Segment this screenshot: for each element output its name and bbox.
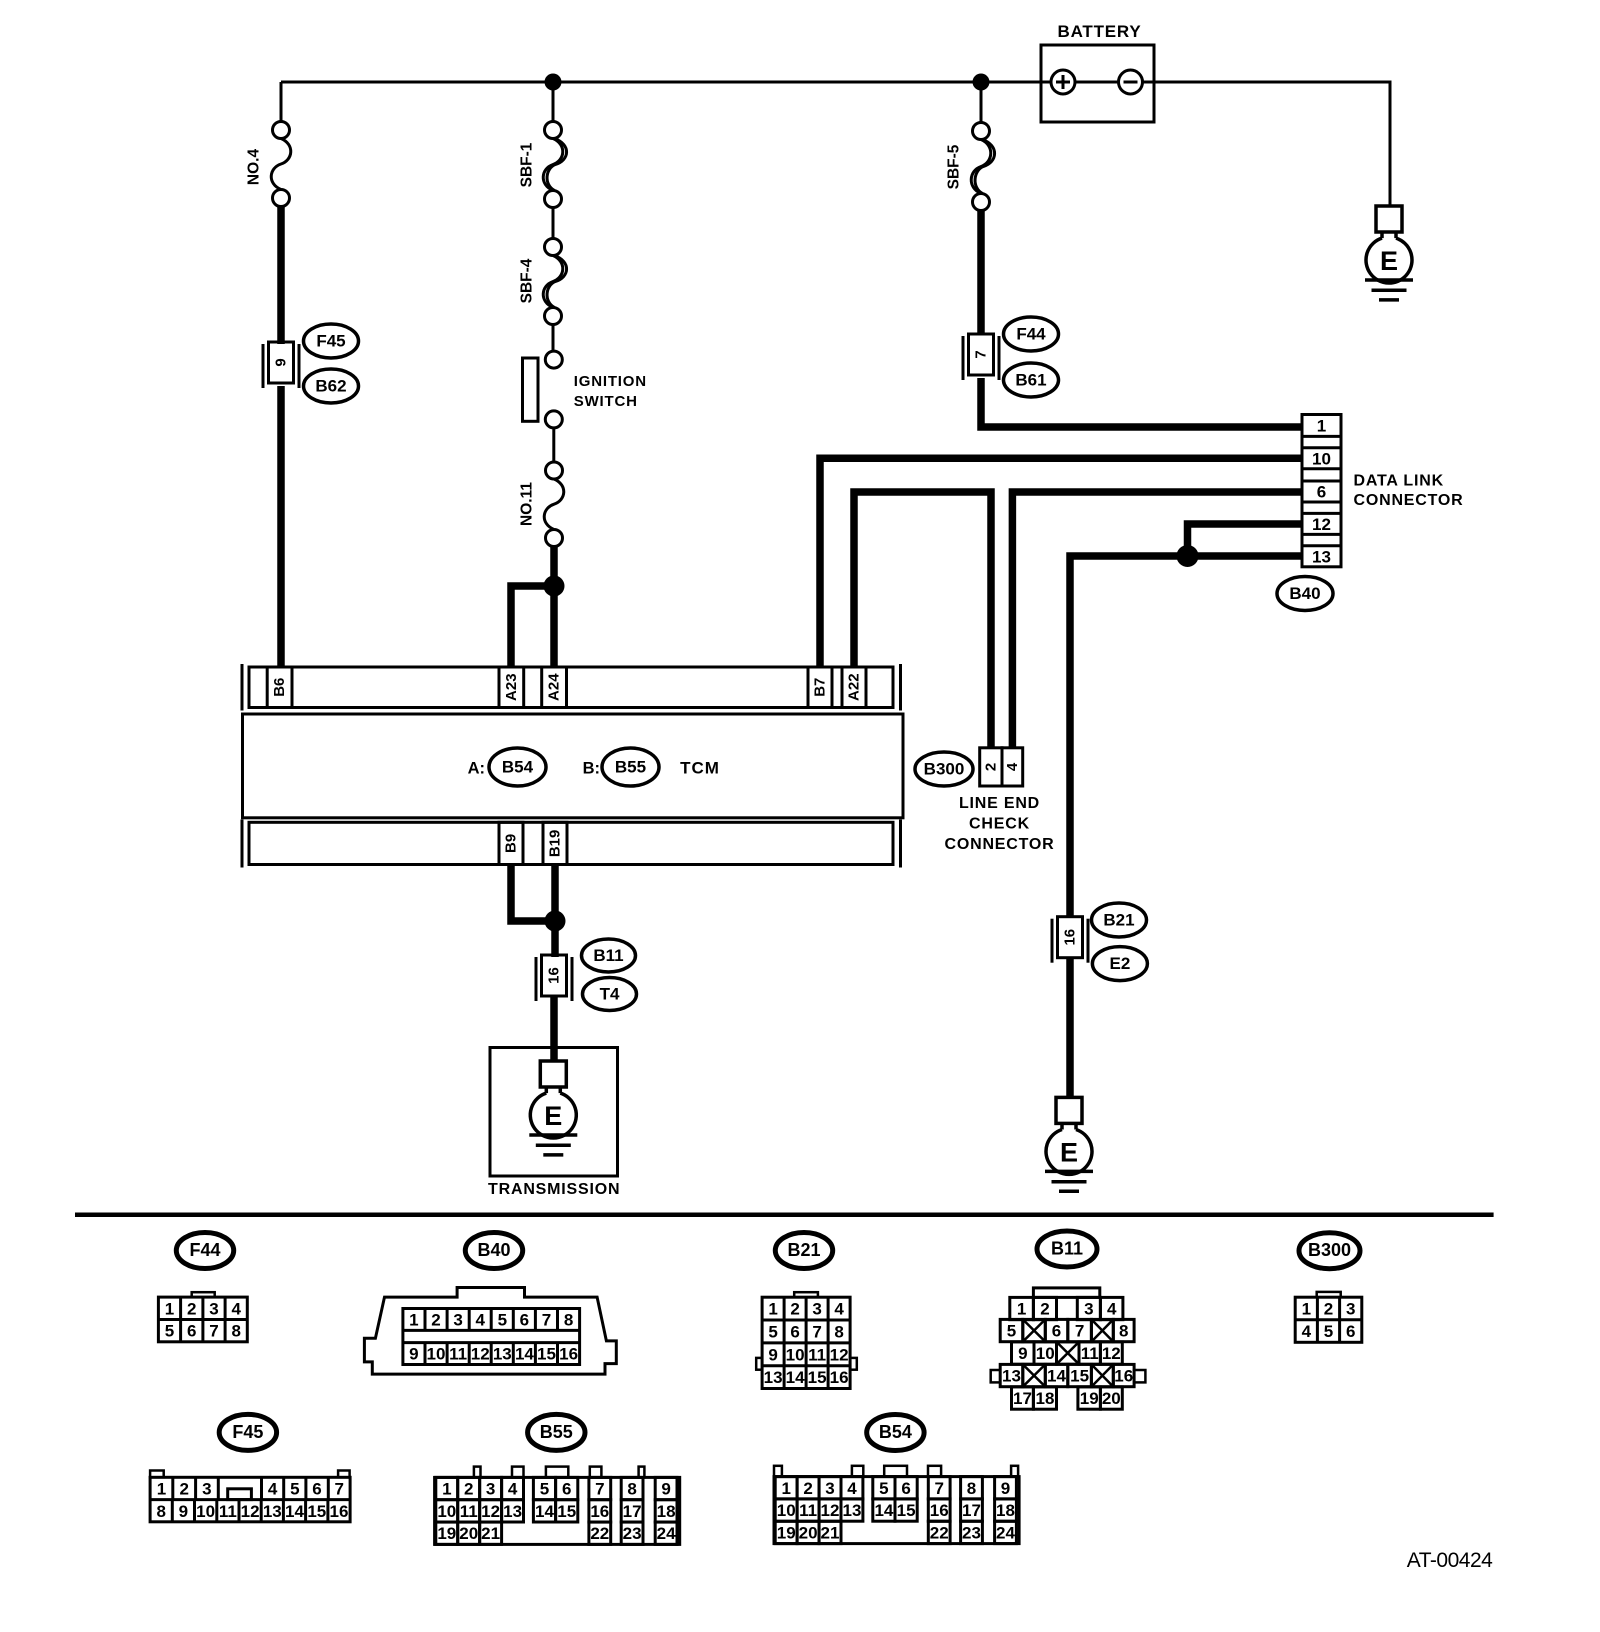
svg-text:13: 13 [493, 1345, 512, 1364]
svg-text:B21: B21 [787, 1240, 820, 1260]
svg-text:11: 11 [460, 1502, 478, 1521]
pin 6 [1045, 1319, 1068, 1341]
connector B54 label oval (pinout) [867, 1415, 924, 1451]
svg-text:2: 2 [983, 763, 1000, 771]
svg-text:A23: A23 [503, 673, 520, 701]
fuse SBF-4 [519, 239, 567, 325]
svg-text:11: 11 [808, 1345, 826, 1364]
svg-text:20: 20 [1102, 1389, 1121, 1408]
svg-text:4: 4 [834, 1300, 844, 1319]
svg-text:1: 1 [768, 1300, 777, 1319]
connector B54 pinout [774, 1466, 1019, 1544]
svg-text:10: 10 [1036, 1344, 1055, 1363]
pin 10 [1034, 1342, 1057, 1364]
svg-text:13: 13 [503, 1502, 522, 1521]
connector pin 16 of B11/T4 [536, 955, 572, 1001]
svg-text:21: 21 [821, 1523, 840, 1542]
switch - IGNITION SWITCH [523, 351, 647, 428]
svg-text:13: 13 [1002, 1367, 1021, 1386]
svg-text:8: 8 [156, 1502, 165, 1521]
svg-text:11: 11 [799, 1501, 817, 1520]
connector B40 pinout outline [364, 1288, 616, 1375]
connector B40 label oval (pinout) [465, 1233, 522, 1269]
wire - F45 pin 9 down to TCM terminal B6 [277, 386, 285, 667]
svg-text:18: 18 [657, 1502, 676, 1521]
pin 15 [1068, 1364, 1092, 1386]
connector T4 label [583, 978, 637, 1011]
svg-text:7: 7 [812, 1323, 821, 1342]
svg-text:F44: F44 [1016, 325, 1046, 344]
svg-text:5: 5 [879, 1479, 888, 1498]
svg-text:9: 9 [661, 1480, 670, 1499]
svg-text:B9: B9 [503, 834, 520, 853]
svg-text:6: 6 [1317, 483, 1326, 502]
connector E2 label [1092, 947, 1147, 981]
svg-text:5: 5 [540, 1480, 549, 1499]
svg-text:8: 8 [967, 1479, 976, 1498]
svg-text:TRANSMISSION: TRANSMISSION [488, 1181, 620, 1198]
svg-text:14: 14 [515, 1345, 534, 1364]
terminal A24 [542, 667, 567, 708]
svg-text:6: 6 [1052, 1322, 1061, 1341]
svg-text:3: 3 [486, 1480, 495, 1499]
svg-text:9: 9 [409, 1345, 418, 1364]
connector - DATA LINK CONNECTOR B40 pin stack [1302, 415, 1341, 567]
svg-text:4: 4 [268, 1480, 278, 1499]
svg-text:15: 15 [307, 1502, 326, 1521]
svg-text:7: 7 [973, 350, 990, 358]
svg-text:7: 7 [1075, 1322, 1084, 1341]
svg-text:NO.11: NO.11 [519, 482, 536, 526]
svg-text:F45: F45 [232, 1422, 263, 1442]
svg-text:19: 19 [1080, 1389, 1099, 1408]
wire - drop from bus to fuse SBF-1 [552, 82, 555, 122]
crossed cavity [1023, 1364, 1046, 1386]
wire - SBF-5 to fuse F44 pin 7 [977, 210, 985, 335]
svg-text:CHECK: CHECK [969, 816, 1030, 833]
module TCM - bottom connector strip [242, 820, 901, 868]
svg-text:4: 4 [508, 1480, 518, 1499]
connector B55 label (TCM B) [602, 748, 659, 786]
svg-text:1: 1 [442, 1480, 451, 1499]
node - junction dot at SBF-5 branch [973, 74, 990, 91]
svg-text:16: 16 [546, 967, 563, 984]
svg-text:16: 16 [590, 1502, 609, 1521]
svg-text:11: 11 [219, 1502, 237, 1521]
svg-text:15: 15 [1070, 1367, 1089, 1386]
wire - B21 pin 16 down to ground [1066, 958, 1074, 1099]
svg-text:16: 16 [559, 1345, 578, 1364]
svg-text:12: 12 [481, 1502, 500, 1521]
svg-text:B54: B54 [502, 758, 534, 777]
svg-text:3: 3 [825, 1479, 834, 1498]
crossed cavity [1091, 1364, 1113, 1386]
pin 11 [1079, 1342, 1100, 1364]
crossed cavity [1057, 1342, 1080, 1364]
ground E - transmission internal ground [529, 1061, 577, 1155]
label - DATA LINK CONNECTOR [1354, 473, 1464, 510]
pin 3 [1077, 1297, 1100, 1319]
svg-text:1: 1 [157, 1480, 166, 1499]
label - LINE END CHECK CONNECTOR [944, 795, 1054, 853]
svg-text:14: 14 [535, 1502, 554, 1521]
svg-text:6: 6 [1346, 1322, 1355, 1341]
connector F44 label [1004, 317, 1059, 351]
wire - TCM B7 to data link pin 10 [820, 458, 1302, 667]
svg-text:10: 10 [786, 1345, 805, 1364]
fuse SBF-1 [519, 122, 567, 208]
svg-text:4: 4 [475, 1311, 485, 1330]
svg-text:B300: B300 [924, 760, 965, 779]
separator line between schematic and connector views [75, 1212, 1494, 1217]
svg-text:15: 15 [808, 1368, 827, 1387]
svg-text:B55: B55 [540, 1422, 573, 1442]
svg-text:3: 3 [812, 1300, 821, 1319]
pin 8 [1113, 1319, 1134, 1341]
svg-text:19: 19 [437, 1524, 456, 1543]
pin 20 [1100, 1387, 1122, 1409]
svg-text:17: 17 [962, 1501, 981, 1520]
svg-text:E2: E2 [1110, 954, 1131, 973]
connector F45 label [304, 324, 359, 358]
svg-text:23: 23 [962, 1523, 981, 1542]
svg-text:10: 10 [196, 1502, 215, 1521]
wire - data link pin 12 drop to pin 13 wire [1188, 524, 1303, 556]
svg-text:14: 14 [1047, 1367, 1066, 1386]
svg-text:B6: B6 [271, 678, 288, 697]
svg-text:2: 2 [1040, 1300, 1049, 1319]
wire - branch junction to TCM terminal A23 [511, 586, 554, 667]
node - junction dot above TCM A24 [544, 576, 565, 597]
svg-text:2: 2 [790, 1300, 799, 1319]
svg-text:16: 16 [830, 1368, 849, 1387]
svg-text:F45: F45 [316, 332, 345, 351]
svg-text:17: 17 [1013, 1389, 1032, 1408]
svg-text:12: 12 [821, 1501, 840, 1520]
svg-text:B54: B54 [879, 1422, 912, 1442]
connector B54 label (TCM A) [489, 748, 546, 786]
connector - line end check connector pins 2 and 4 [980, 748, 1023, 786]
svg-text:12: 12 [471, 1345, 490, 1364]
ground E - battery negative ground, top right [1365, 206, 1413, 300]
svg-text:LINE END: LINE END [959, 795, 1040, 812]
svg-text:7: 7 [334, 1480, 343, 1499]
svg-text:10: 10 [437, 1502, 456, 1521]
connector B21 pinout 4x4 [756, 1292, 857, 1388]
svg-text:2: 2 [179, 1480, 188, 1499]
svg-text:B300: B300 [1308, 1240, 1351, 1260]
svg-text:9: 9 [1001, 1479, 1010, 1498]
connector B300 pinout 3x2 [1295, 1292, 1362, 1342]
terminal B6 [267, 667, 292, 708]
svg-text:B40: B40 [477, 1240, 510, 1260]
svg-text:22: 22 [590, 1524, 609, 1543]
pin 19 [1078, 1387, 1101, 1409]
svg-text:20: 20 [799, 1523, 818, 1542]
svg-text:8: 8 [231, 1322, 240, 1341]
svg-text:A:: A: [468, 760, 485, 778]
svg-text:TCM: TCM [680, 759, 720, 778]
wire - F44 pin 7 to data link connector pin 1 [981, 378, 1302, 427]
svg-text:3: 3 [1084, 1300, 1093, 1319]
svg-text:10: 10 [427, 1345, 446, 1364]
svg-text:13: 13 [764, 1368, 783, 1387]
svg-text:14: 14 [285, 1502, 304, 1521]
connector B40 label oval [1277, 577, 1333, 611]
wire - TCM A22 to line end check connector pin 2 [854, 492, 991, 749]
svg-text:1: 1 [1317, 416, 1326, 435]
svg-text:B:: B: [583, 760, 600, 778]
svg-text:2: 2 [1324, 1300, 1333, 1319]
svg-text:24: 24 [996, 1523, 1015, 1542]
svg-text:E: E [544, 1101, 562, 1131]
pin 9 [1012, 1342, 1035, 1364]
svg-text:15: 15 [557, 1502, 576, 1521]
svg-text:7: 7 [595, 1480, 604, 1499]
svg-text:4: 4 [847, 1479, 857, 1498]
svg-text:7: 7 [542, 1311, 551, 1330]
svg-text:B11: B11 [593, 946, 623, 965]
wire - top battery bus from NO.4 branch to battery and ground drop [281, 82, 1390, 206]
connector B40 pinout grid 8x2 [403, 1309, 580, 1365]
svg-text:4: 4 [231, 1299, 241, 1318]
svg-text:3: 3 [209, 1299, 218, 1318]
pin 14 [1045, 1364, 1068, 1386]
terminal A23 [499, 667, 524, 708]
svg-text:1: 1 [1017, 1300, 1026, 1319]
svg-text:BATTERY: BATTERY [1058, 22, 1142, 41]
svg-text:AT-00424: AT-00424 [1407, 1549, 1493, 1572]
svg-text:15: 15 [537, 1345, 556, 1364]
fuse SBF-5 [946, 123, 995, 211]
svg-text:E: E [1380, 246, 1398, 276]
pin 4 [1100, 1297, 1123, 1319]
svg-text:14: 14 [786, 1368, 805, 1387]
pin 18 [1033, 1387, 1056, 1409]
node - junction dot at SBF-1 branch [545, 74, 562, 91]
svg-text:23: 23 [623, 1524, 642, 1543]
wire - fuse NO.11 to junction above TCM A24 [550, 546, 558, 592]
ground E - right lower ground [1045, 1097, 1093, 1191]
svg-text:6: 6 [187, 1322, 196, 1341]
svg-text:12: 12 [241, 1502, 260, 1521]
svg-text:8: 8 [564, 1311, 573, 1330]
svg-text:9: 9 [179, 1502, 188, 1521]
svg-text:16: 16 [1062, 929, 1079, 946]
node - junction dot below TCM B19 [545, 911, 566, 932]
svg-text:5: 5 [768, 1323, 777, 1342]
pin 2 [1033, 1297, 1056, 1319]
svg-text:DATA LINK: DATA LINK [1354, 473, 1444, 490]
svg-text:4: 4 [1107, 1300, 1117, 1319]
svg-text:5: 5 [1324, 1322, 1333, 1341]
wire - data link pin 13 to fuse B21 pin 16 [1070, 556, 1302, 918]
svg-text:9: 9 [768, 1345, 777, 1364]
svg-text:13: 13 [263, 1502, 282, 1521]
svg-text:3: 3 [1346, 1300, 1355, 1319]
svg-text:B61: B61 [1015, 371, 1046, 390]
module TCM - body [243, 714, 904, 818]
svg-text:SBF-1: SBF-1 [519, 142, 536, 187]
svg-text:13: 13 [843, 1501, 862, 1520]
svg-text:11: 11 [449, 1345, 467, 1364]
svg-text:14: 14 [874, 1501, 893, 1520]
svg-text:6: 6 [520, 1311, 529, 1330]
battery BATTERY [1041, 22, 1154, 122]
svg-text:9: 9 [273, 358, 290, 366]
svg-text:16: 16 [930, 1501, 949, 1520]
svg-text:SBF-4: SBF-4 [519, 258, 536, 303]
svg-text:10: 10 [777, 1501, 796, 1520]
svg-text:B7: B7 [812, 678, 829, 697]
svg-text:1: 1 [409, 1311, 418, 1330]
svg-text:12: 12 [1102, 1344, 1121, 1363]
connector B11 label [582, 939, 636, 972]
svg-text:10: 10 [1312, 449, 1331, 468]
svg-text:19: 19 [777, 1523, 796, 1542]
svg-text:B62: B62 [315, 377, 346, 396]
pin 7 [1068, 1319, 1092, 1341]
svg-text:SWITCH: SWITCH [574, 393, 638, 410]
svg-text:2: 2 [187, 1299, 196, 1318]
svg-text:6: 6 [562, 1480, 571, 1499]
terminal B7 [808, 667, 832, 708]
pin 12 [1100, 1342, 1122, 1364]
terminal B9 [499, 822, 523, 864]
svg-text:6: 6 [790, 1323, 799, 1342]
wire - junction down to TCM terminal A24 [550, 586, 558, 667]
wire - SBF-4 to ignition switch [552, 324, 555, 352]
wire - ignition switch to fuse NO.11 [552, 428, 555, 462]
svg-text:6: 6 [901, 1479, 910, 1498]
connector B61 label [1004, 363, 1059, 397]
svg-text:8: 8 [1119, 1322, 1128, 1341]
wire - line end check connector pin 4 to data link pin 6 [1012, 492, 1302, 749]
connector B55 label oval (pinout) [528, 1414, 585, 1450]
connector F45 label oval (pinout) [219, 1414, 276, 1450]
connector B55 pinout [435, 1467, 680, 1545]
svg-text:1: 1 [1302, 1300, 1311, 1319]
svg-text:E: E [1060, 1137, 1078, 1167]
wire - drop from bus to fuse SBF-5 [980, 82, 983, 123]
svg-text:A24: A24 [546, 673, 563, 701]
svg-text:B55: B55 [615, 758, 646, 777]
svg-text:3: 3 [453, 1311, 462, 1330]
connector F44 label oval (pinout) [176, 1233, 233, 1269]
wire - fuse NO.4 to fuse F45 pin 9 [277, 205, 285, 344]
connector B62 label [304, 369, 359, 403]
svg-text:NO.4: NO.4 [246, 149, 263, 186]
svg-text:4: 4 [1302, 1322, 1312, 1341]
svg-text:CONNECTOR: CONNECTOR [1354, 492, 1464, 509]
connector F44 pinout 4x2 [158, 1292, 247, 1342]
svg-text:1: 1 [165, 1299, 174, 1318]
svg-text:12: 12 [1312, 515, 1331, 534]
pin 5 [1000, 1319, 1023, 1341]
svg-text:18: 18 [996, 1501, 1015, 1520]
pin 13 [1000, 1364, 1023, 1386]
svg-text:CONNECTOR: CONNECTOR [944, 836, 1054, 853]
svg-text:17: 17 [623, 1502, 642, 1521]
svg-text:11: 11 [1081, 1344, 1099, 1363]
connector B11 pinout with crossed cavities [991, 1288, 1146, 1409]
svg-text:13: 13 [1312, 547, 1331, 566]
wire - TCM B19 to junction and fuse T4 pin 16 [551, 865, 559, 957]
fuse NO.4 [246, 122, 291, 207]
svg-text:IGNITION: IGNITION [574, 373, 647, 390]
connector pin 7 of F44/B61 [963, 334, 999, 380]
svg-text:8: 8 [834, 1323, 843, 1342]
svg-text:8: 8 [627, 1480, 636, 1499]
svg-text:7: 7 [934, 1479, 943, 1498]
svg-text:5: 5 [1007, 1322, 1016, 1341]
crossed cavity [1091, 1319, 1113, 1341]
svg-text:20: 20 [459, 1524, 478, 1543]
connector B21 label [1092, 903, 1147, 937]
pin 17 [1012, 1387, 1034, 1409]
svg-text:4: 4 [1004, 762, 1021, 771]
svg-text:6: 6 [312, 1480, 321, 1499]
svg-text:5: 5 [498, 1311, 507, 1330]
svg-text:B19: B19 [547, 830, 564, 858]
svg-text:5: 5 [165, 1322, 174, 1341]
module TCM - top connector strip [242, 664, 901, 711]
svg-text:B21: B21 [1103, 911, 1134, 930]
svg-text:SBF-5: SBF-5 [946, 144, 963, 189]
svg-text:24: 24 [657, 1524, 676, 1543]
connector B300 label oval (pinout) [1299, 1233, 1360, 1269]
svg-text:3: 3 [202, 1480, 211, 1499]
svg-text:7: 7 [209, 1322, 218, 1341]
svg-text:21: 21 [481, 1524, 500, 1543]
svg-text:B40: B40 [1289, 584, 1320, 603]
svg-text:A22: A22 [846, 673, 863, 701]
connector B300 label oval [915, 752, 973, 786]
terminal B19 [543, 822, 567, 864]
wire - drop from bus to fuse NO.4 [280, 82, 283, 122]
svg-text:2: 2 [803, 1479, 812, 1498]
fuse NO.11 [519, 462, 564, 547]
svg-text:F44: F44 [189, 1240, 220, 1260]
svg-text:15: 15 [897, 1501, 916, 1520]
pin 1 [1010, 1297, 1034, 1319]
svg-text:16: 16 [330, 1502, 349, 1521]
svg-text:B11: B11 [1051, 1239, 1083, 1259]
svg-text:12: 12 [830, 1345, 849, 1364]
svg-text:18: 18 [1036, 1389, 1055, 1408]
svg-text:T4: T4 [600, 985, 620, 1004]
connector B21 label oval (pinout) [775, 1233, 832, 1269]
wire - SBF-1 to SBF-4 [552, 207, 555, 239]
svg-text:16: 16 [1114, 1367, 1133, 1386]
svg-text:5: 5 [290, 1480, 299, 1499]
wire - T4 pin 16 down into transmission [550, 996, 558, 1062]
wire - TCM B9 to junction [511, 865, 555, 921]
svg-text:1: 1 [781, 1479, 790, 1498]
svg-text:2: 2 [464, 1480, 473, 1499]
terminal A22 [842, 667, 866, 708]
connector pin 9 of F45/B62 [263, 342, 299, 388]
svg-text:2: 2 [431, 1311, 440, 1330]
svg-text:9: 9 [1018, 1344, 1027, 1363]
connector pin 16 of B21/E2 [1052, 917, 1088, 963]
svg-text:22: 22 [930, 1523, 949, 1542]
connector B11 label oval (pinout) [1037, 1231, 1097, 1267]
pin 16 [1113, 1364, 1134, 1386]
module TRANSMISSION box [488, 1048, 620, 1199]
crossed cavity [1023, 1319, 1046, 1341]
node - junction dot on pin 13 wire [1177, 545, 1199, 567]
